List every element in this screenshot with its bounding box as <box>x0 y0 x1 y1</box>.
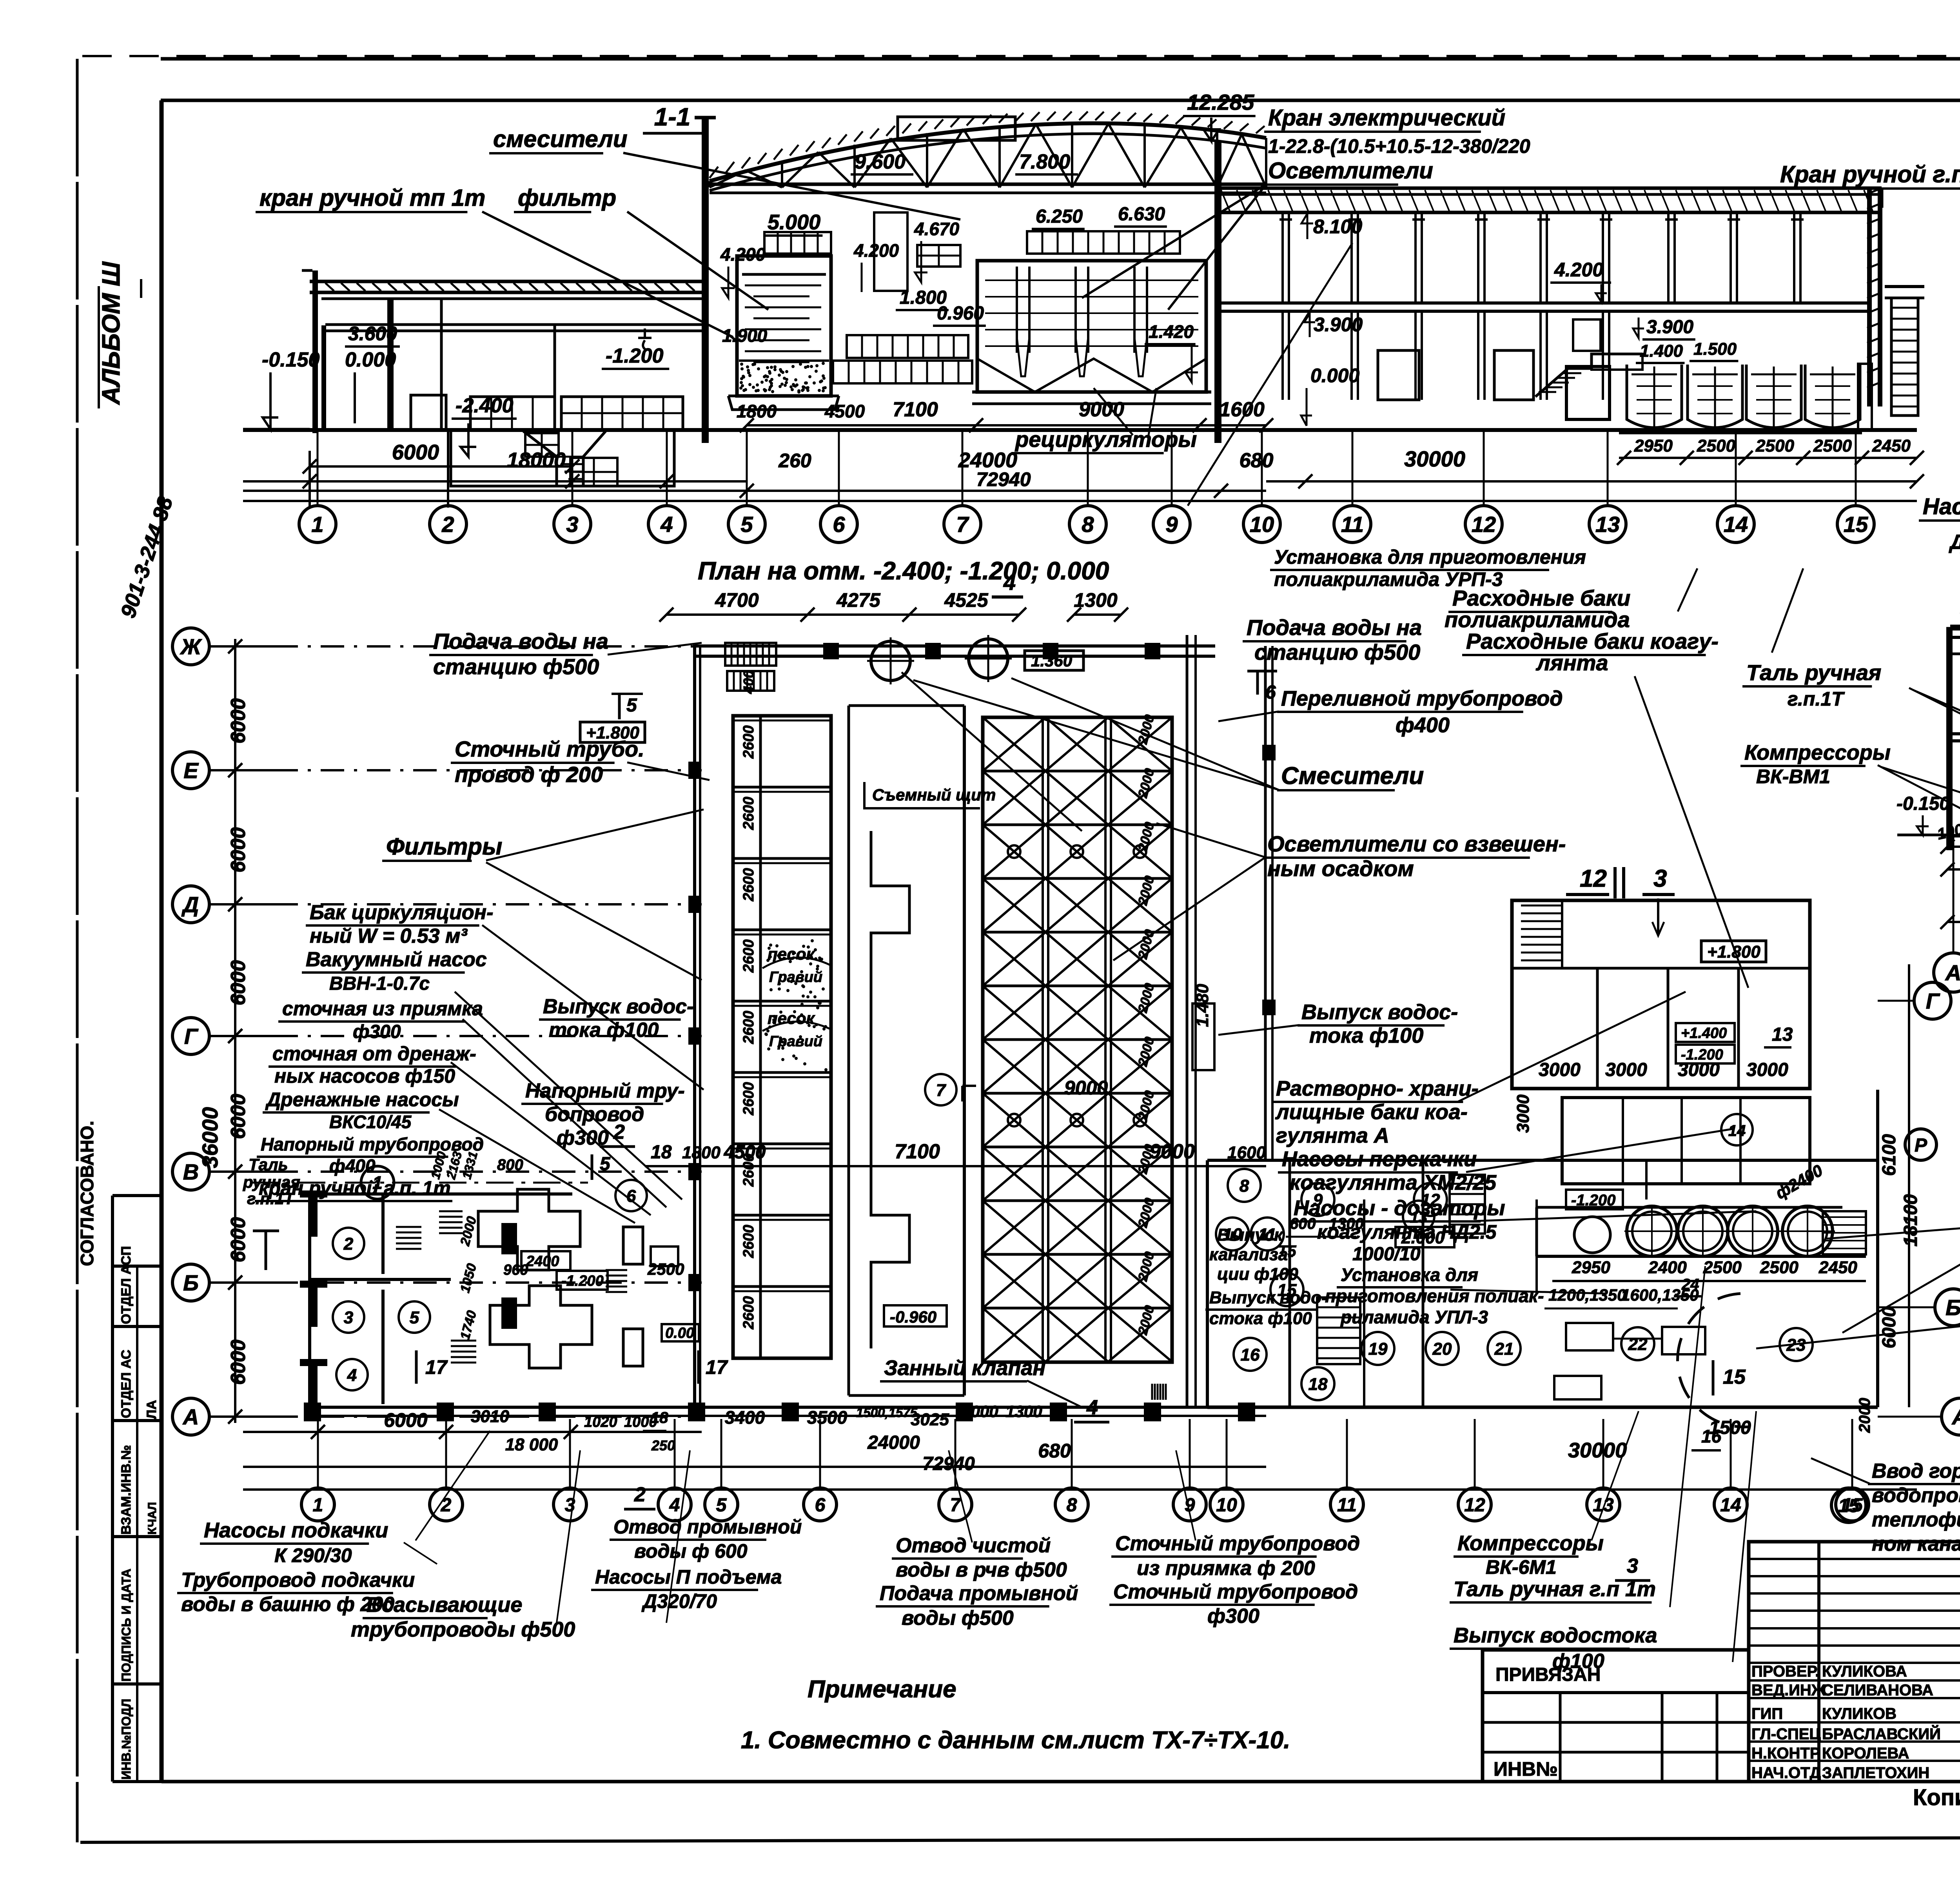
basement stair pit <box>451 431 674 486</box>
svg-text:20: 20 <box>1432 1339 1452 1359</box>
upper tank block (rastvorno-khranilishchnye) <box>1512 900 1810 1089</box>
svg-text:11: 11 <box>1341 512 1364 537</box>
svg-text:ПРОВЕР.: ПРОВЕР. <box>1751 1663 1819 1680</box>
stair right building <box>1535 354 1642 397</box>
svg-text:2600: 2600 <box>740 1011 757 1044</box>
svg-text:2600: 2600 <box>740 868 757 902</box>
svg-text:4500: 4500 <box>824 401 865 421</box>
svg-text:Таль ручная г.п 1т: Таль ручная г.п 1т <box>1454 1577 1656 1601</box>
bottom wall row A <box>310 1406 1266 1409</box>
svg-text:4.200: 4.200 <box>720 244 766 265</box>
leader lines from left labels <box>482 925 704 1090</box>
svg-text:риламида УПЛ-3: риламида УПЛ-3 <box>1340 1307 1488 1327</box>
ground line <box>243 428 1917 432</box>
svg-text:10: 10 <box>1216 1495 1237 1515</box>
svg-text:ВЕД.ИНЖ: ВЕД.ИНЖ <box>1751 1682 1826 1699</box>
svg-text:Фильтры: Фильтры <box>386 833 502 860</box>
hatch marks below grid <box>1151 1384 1153 1400</box>
+1.400 -1.200 boxes <box>1676 1023 1735 1042</box>
grid line Г <box>210 1035 274 1037</box>
svg-text:1.500: 1.500 <box>1693 339 1737 359</box>
svg-text:Осветлители со взвешен-: Осветлители со взвешен- <box>1267 831 1566 856</box>
svg-text:ГИП: ГИП <box>1751 1705 1783 1722</box>
svg-text:Таль: Таль <box>249 1155 288 1174</box>
ground floor columns <box>1281 311 1284 400</box>
svg-text:2: 2 <box>441 512 454 537</box>
interior partitions right plan <box>1289 1160 1291 1407</box>
svg-text:-0.150: -0.150 <box>262 348 320 371</box>
grid line Б <box>210 1281 274 1284</box>
svg-text:18: 18 <box>1308 1375 1328 1394</box>
svg-text:9: 9 <box>1313 1190 1323 1210</box>
svg-text:Сточный трубопровод: Сточный трубопровод <box>1115 1532 1360 1555</box>
svg-text:72940: 72940 <box>922 1453 975 1474</box>
svg-text:ф400: ф400 <box>1396 713 1450 737</box>
2.000 box room 12 <box>1396 1227 1454 1247</box>
svg-text:11: 11 <box>1337 1495 1357 1515</box>
svg-text:2500: 2500 <box>1697 436 1735 455</box>
lower-left rooms outer walls <box>310 1192 572 1196</box>
3-3 grid bubbles <box>1953 837 1955 953</box>
plan left outer wall <box>693 645 696 1407</box>
svg-text:ВВН-1-0.7с: ВВН-1-0.7с <box>329 973 430 994</box>
svg-text:7: 7 <box>956 512 969 537</box>
svg-text:АЛЬБОМ Ш: АЛЬБОМ Ш <box>97 261 125 405</box>
svg-text:19: 19 <box>1368 1339 1388 1359</box>
svg-text:смесители: смесители <box>493 126 628 152</box>
1-1 left low building <box>310 280 706 283</box>
svg-text:6.630: 6.630 <box>1118 204 1165 225</box>
equipment boxes left building <box>411 395 446 430</box>
svg-text:кран ручной тп 1т: кран ручной тп 1т <box>260 185 485 211</box>
svg-text:0.00: 0.00 <box>665 1325 694 1341</box>
svg-text:тока ф100: тока ф100 <box>1309 1024 1423 1047</box>
svg-text:17: 17 <box>425 1356 448 1378</box>
signature table <box>1749 1542 1960 1782</box>
svg-text:Съемный щит: Съемный щит <box>872 786 996 804</box>
svg-text:ВК-6М1: ВК-6М1 <box>1486 1556 1557 1578</box>
svg-text:12: 12 <box>1472 512 1496 537</box>
svg-text:воды в рчв ф500: воды в рчв ф500 <box>896 1559 1067 1581</box>
svg-text:Подача воды на: Подача воды на <box>1247 615 1422 640</box>
svg-text:ИНВ№: ИНВ№ <box>1494 1758 1558 1780</box>
svg-text:4.670: 4.670 <box>914 219 960 239</box>
svg-text:стока ф100: стока ф100 <box>1209 1309 1312 1328</box>
svg-text:2: 2 <box>613 1121 625 1143</box>
svg-text:Насосы Пподъема: Насосы Пподъема <box>1923 494 1960 519</box>
svg-text:14: 14 <box>1728 1122 1746 1140</box>
svg-text:СОГЛАСОВАНО.: СОГЛАСОВАНО. <box>77 1121 97 1266</box>
crane rail grid <box>1027 231 1180 254</box>
svg-text:7.800: 7.800 <box>1019 151 1070 173</box>
left margin stamp table <box>111 1196 114 1782</box>
leader from 9-10 to crane <box>1188 243 1352 506</box>
svg-text:8: 8 <box>1240 1176 1249 1196</box>
svg-text:7: 7 <box>936 1081 947 1100</box>
svg-text:воды ф500: воды ф500 <box>902 1607 1014 1629</box>
svg-text:2400: 2400 <box>526 1253 559 1270</box>
svg-text:2500: 2500 <box>1755 436 1794 455</box>
filter bank outer <box>733 716 831 1358</box>
svg-text:4: 4 <box>1003 570 1016 595</box>
svg-text:12: 12 <box>1580 865 1607 892</box>
grid line А <box>210 1415 274 1418</box>
svg-text:3500: 3500 <box>807 1407 848 1428</box>
svg-text:24: 24 <box>1681 1276 1699 1293</box>
svg-text:1500: 1500 <box>1709 1417 1751 1438</box>
svg-text:1: 1 <box>313 1495 323 1515</box>
right small tanks in pit <box>1619 431 1862 434</box>
svg-text:Р: Р <box>1915 1135 1927 1156</box>
svg-text:г.п.1Т: г.п.1Т <box>247 1189 295 1208</box>
svg-text:17: 17 <box>706 1356 728 1378</box>
top wall band of plan <box>695 644 1215 648</box>
svg-text:ф400: ф400 <box>329 1156 376 1176</box>
-0.960 box <box>884 1305 947 1326</box>
paper left edge <box>76 59 79 1842</box>
grid line В <box>210 1170 274 1173</box>
svg-text:2: 2 <box>343 1234 354 1254</box>
sand layer dots <box>739 362 827 394</box>
svg-text:Б: Б <box>183 1270 199 1295</box>
frame top band <box>161 57 1960 61</box>
row B wall <box>310 1278 451 1281</box>
svg-text:ЛА: ЛА <box>144 1400 159 1419</box>
svg-text:13: 13 <box>1772 1024 1793 1045</box>
svg-text:6000: 6000 <box>227 827 250 873</box>
svg-text:0.000: 0.000 <box>345 348 396 371</box>
svg-text:1.900: 1.900 <box>722 325 768 346</box>
svg-text:2400: 2400 <box>1648 1258 1687 1277</box>
svg-text:1300: 1300 <box>1329 1215 1364 1232</box>
svg-text:6: 6 <box>833 512 845 537</box>
unit block left of tanks <box>1566 367 1610 419</box>
svg-text:-1.200: -1.200 <box>1681 1047 1723 1063</box>
svg-text:2500: 2500 <box>1760 1258 1798 1277</box>
paper bottom edge <box>80 1836 1960 1842</box>
svg-text:-1.200: -1.200 <box>606 345 664 367</box>
svg-text:Компрессоры: Компрессоры <box>1744 741 1891 764</box>
svg-text:5: 5 <box>740 512 753 537</box>
svg-text:2600: 2600 <box>740 725 757 759</box>
clarifiers plan grid <box>983 717 1172 1362</box>
svg-text:трубопроводы ф500: трубопроводы ф500 <box>351 1618 575 1641</box>
svg-text:фильтр: фильтр <box>518 185 616 211</box>
mid floor slab <box>1221 301 1867 305</box>
svg-text:8: 8 <box>1082 512 1094 537</box>
clarifier hoppers <box>977 359 1206 392</box>
svg-text:Н.КОНТР: Н.КОНТР <box>1751 1745 1820 1762</box>
svg-text:13: 13 <box>1593 1495 1614 1515</box>
svg-text:приготовления полиак-: приготовления полиак- <box>1325 1286 1544 1306</box>
top-left stairs of plan <box>725 643 776 666</box>
svg-text:А: А <box>1945 960 1960 985</box>
svg-text:станцию ф500: станцию ф500 <box>433 654 599 679</box>
svg-text:Выпуск водос-: Выпуск водос- <box>1301 1000 1458 1024</box>
skylight box <box>898 117 1015 140</box>
svg-text:5: 5 <box>410 1308 419 1327</box>
svg-text:ВЗАМ.ИНВ.№: ВЗАМ.ИНВ.№ <box>119 1445 134 1535</box>
svg-text:6000: 6000 <box>392 441 439 464</box>
right building left wall <box>1215 188 1221 406</box>
svg-text:Насосы П подъема: Насосы П подъема <box>595 1566 782 1588</box>
svg-text:10: 10 <box>1250 512 1274 537</box>
svg-text:тока ф100: тока ф100 <box>549 1019 659 1042</box>
svg-text:2000: 2000 <box>961 1402 998 1421</box>
svg-text:3: 3 <box>1653 865 1667 892</box>
svg-text:16: 16 <box>1241 1345 1260 1365</box>
svg-text:12: 12 <box>1464 1495 1485 1515</box>
svg-text:из приямка ф 200: из приямка ф 200 <box>1137 1557 1315 1580</box>
axis 1 centerline <box>251 1182 588 1184</box>
left building partitions <box>440 299 443 429</box>
svg-text:1200,1350: 1200,1350 <box>1548 1286 1626 1304</box>
svg-text:18000: 18000 <box>507 448 566 472</box>
grid line Д <box>210 903 274 905</box>
svg-text:4: 4 <box>347 1366 357 1385</box>
svg-text:14: 14 <box>1720 1495 1741 1515</box>
svg-text:КОРОЛЕВА: КОРОЛЕВА <box>1822 1745 1909 1762</box>
svg-text:+1.800: +1.800 <box>1707 942 1760 962</box>
svg-text:Выпуск водостока: Выпуск водостока <box>1454 1624 1657 1647</box>
svg-text:6000: 6000 <box>384 1409 427 1431</box>
svg-text:План на отм. -2.400; -1.200; 0: План на отм. -2.400; -1.200; 0.000 <box>698 557 1109 585</box>
svg-text:4500: 4500 <box>724 1142 766 1163</box>
svg-text:Копировал: Коршунова: Копировал: Коршунова <box>1913 1785 1960 1810</box>
svg-text:15: 15 <box>1278 1281 1297 1300</box>
floor band <box>325 323 702 326</box>
svg-text:Переливной трубопровод: Переливной трубопровод <box>1281 687 1563 710</box>
stair hatches pump hall <box>396 1226 421 1228</box>
svg-text:+1.400: +1.400 <box>1681 1025 1727 1042</box>
svg-text:1.480: 1.480 <box>1193 983 1212 1027</box>
svg-text:1-1: 1-1 <box>654 103 691 131</box>
svg-text:бопровод: бопровод <box>545 1103 644 1126</box>
svg-text:7100: 7100 <box>895 1140 940 1163</box>
svg-text:13: 13 <box>1595 512 1620 537</box>
svg-text:К 290/30: К 290/30 <box>274 1544 352 1566</box>
svg-text:Насосы - дозаторы: Насосы - дозаторы <box>1294 1196 1505 1220</box>
svg-text:Сточный трубопровод: Сточный трубопровод <box>1113 1580 1358 1603</box>
svg-text:Отвод промывной: Отвод промывной <box>613 1516 802 1538</box>
roof deck hatch <box>710 167 718 178</box>
svg-text:1020: 1020 <box>584 1414 617 1430</box>
svg-text:ИНВ.№ПОДЛ: ИНВ.№ПОДЛ <box>119 1699 133 1780</box>
svg-text:ф300: ф300 <box>353 1022 401 1042</box>
svg-text:2600: 2600 <box>740 1296 757 1330</box>
+1.800 box top <box>580 722 645 742</box>
svg-text:4.200: 4.200 <box>853 240 899 261</box>
svg-text:песок: песок <box>768 945 815 963</box>
svg-text:НАЧ.ОТД: НАЧ.ОТД <box>1751 1764 1821 1782</box>
curved roof truss <box>710 123 1266 181</box>
svg-text:9000: 9000 <box>1149 1140 1195 1163</box>
svg-text:В: В <box>183 1159 199 1184</box>
svg-text:Г: Г <box>184 1024 199 1049</box>
svg-text:ГЛ-СПЕЦ: ГЛ-СПЕЦ <box>1751 1726 1821 1743</box>
svg-text:БРАСЛАВСКИЙ: БРАСЛАВСКИЙ <box>1822 1725 1941 1743</box>
small equipment rects bottom right plan <box>1566 1323 1613 1350</box>
sand cells hatch <box>764 939 828 1071</box>
svg-text:2600: 2600 <box>740 1225 757 1258</box>
svg-text:680: 680 <box>1038 1440 1071 1462</box>
svg-text:18100: 18100 <box>1900 1194 1921 1247</box>
svg-text:1-22.8-(10.5+10.5-12-380/220: 1-22.8-(10.5+10.5-12-380/220 <box>1268 135 1530 157</box>
svg-text:4: 4 <box>669 1495 680 1515</box>
svg-text:Компрессоры: Компрессоры <box>1457 1531 1604 1555</box>
svg-text:2450: 2450 <box>1872 436 1911 455</box>
svg-text:9000: 9000 <box>1079 398 1124 421</box>
hook symbol tal <box>644 328 646 338</box>
+1.800 box <box>1701 941 1766 962</box>
svg-text:36000: 36000 <box>198 1107 222 1168</box>
right building right wall hatched <box>1867 188 1872 406</box>
svg-text:6000: 6000 <box>227 1339 250 1385</box>
svg-text:ОТДЕЛ АСП: ОТДЕЛ АСП <box>119 1246 134 1324</box>
svg-text:24000: 24000 <box>867 1432 920 1453</box>
svg-text:18: 18 <box>651 1142 672 1163</box>
leader lines bottom labels <box>416 1431 490 1541</box>
T-wall end marks <box>310 1194 318 1237</box>
svg-text:Таль ручная: Таль ручная <box>1746 660 1881 685</box>
dim row under tanks <box>1619 457 1917 459</box>
hoist monorail symbol <box>265 1231 267 1270</box>
svg-text:Подача воды на: Подача воды на <box>433 629 608 653</box>
svg-text:9.600: 9.600 <box>855 151 906 173</box>
svg-text:Кран ручной г.п.1т: Кран ручной г.п.1т <box>1780 161 1960 187</box>
svg-text:6000: 6000 <box>227 960 250 1005</box>
svg-text:30000: 30000 <box>1404 446 1465 471</box>
svg-text:1800: 1800 <box>682 1143 720 1162</box>
svg-text:Отвод чистой: Отвод чистой <box>896 1534 1051 1557</box>
svg-text:2600: 2600 <box>740 1082 757 1116</box>
svg-text:6000: 6000 <box>1879 1306 1900 1348</box>
svg-text:3000: 3000 <box>1746 1060 1788 1080</box>
room number circles <box>333 1228 364 1259</box>
paper top edge dashed line <box>82 55 1960 57</box>
stair tower right of building <box>1885 285 1924 288</box>
1-1 middle tall building columns <box>702 118 709 443</box>
right building columns <box>1281 214 1284 303</box>
svg-text:Е: Е <box>183 758 199 783</box>
svg-text:800: 800 <box>497 1156 523 1174</box>
svg-text:6: 6 <box>815 1495 826 1515</box>
svg-text:4700: 4700 <box>715 589 759 611</box>
svg-text:провод ф 200: провод ф 200 <box>455 762 603 787</box>
svg-text:Гравий: Гравий <box>769 1033 822 1050</box>
svg-text:3: 3 <box>1627 1555 1638 1577</box>
svg-text:72940: 72940 <box>976 468 1031 490</box>
svg-text:3000: 3000 <box>1539 1060 1581 1080</box>
svg-text:3: 3 <box>344 1308 353 1327</box>
svg-text:3.600: 3.600 <box>348 323 397 345</box>
svg-text:5: 5 <box>716 1495 727 1515</box>
svg-text:водопровода в: водопровода в <box>1872 1484 1960 1507</box>
clarifier internal pipes <box>1016 267 1018 353</box>
svg-text:1. Совместно с данным см.лист: 1. Совместно с данным см.лист ТХ-7÷ТХ-10… <box>741 1727 1290 1754</box>
interior column <box>387 299 394 430</box>
svg-text:1.420: 1.420 <box>1149 321 1194 342</box>
title block <box>1483 1650 1749 1782</box>
svg-text:полиакриламида: полиакриламида <box>1445 607 1630 632</box>
svg-text:Осветлители: Осветлители <box>1268 158 1433 183</box>
svg-text:КЧАЛ: КЧАЛ <box>146 1502 159 1535</box>
svg-text:теплофикацион-: теплофикацион- <box>1872 1508 1960 1531</box>
svg-text:12.285: 12.285 <box>1187 90 1254 114</box>
svg-text:ный W = 0.53 м³: ный W = 0.53 м³ <box>310 925 468 947</box>
svg-text:4275: 4275 <box>836 589 880 611</box>
svg-text:ВКС10/45: ВКС10/45 <box>329 1112 412 1132</box>
clarifier block <box>977 261 1206 392</box>
svg-text:3.900: 3.900 <box>1314 314 1363 336</box>
svg-text:ных насосов ф150: ных насосов ф150 <box>274 1065 455 1087</box>
central walls <box>848 706 850 1395</box>
svg-text:Расходные баки коагу-: Расходные баки коагу- <box>1466 629 1719 653</box>
svg-text:ЗАПЛЕТОХИН: ЗАПЛЕТОХИН <box>1822 1764 1929 1782</box>
right wall of clarifier w dims <box>1186 635 1189 1407</box>
svg-text:6100: 6100 <box>1879 1134 1900 1176</box>
svg-text:Занный клапан: Занный клапан <box>884 1356 1045 1380</box>
right plan outer walls <box>1207 1159 1878 1162</box>
clarifier water hatch <box>985 279 1198 281</box>
svg-text:лищные баки коа-: лищные баки коа- <box>1275 1100 1468 1124</box>
svg-text:Растворно- храни-: Растворно- храни- <box>1276 1077 1479 1100</box>
svg-text:Всасывающие: Всасывающие <box>367 1593 522 1617</box>
svg-text:15: 15 <box>1838 1495 1860 1516</box>
svg-text:Ж: Ж <box>180 634 202 659</box>
svg-text:2600: 2600 <box>740 797 757 830</box>
svg-text:18 000: 18 000 <box>505 1435 558 1454</box>
svg-text:600: 600 <box>1290 1215 1316 1232</box>
filter underdrain <box>728 396 839 410</box>
svg-text:3.900: 3.900 <box>1646 317 1693 338</box>
stairs right plan <box>1317 1297 1360 1364</box>
svg-text:ф300: ф300 <box>1207 1605 1259 1628</box>
svg-text:воды в башню ф 200: воды в башню ф 200 <box>181 1593 394 1616</box>
svg-text:4: 4 <box>1086 1396 1098 1419</box>
svg-text:960: 960 <box>503 1262 528 1278</box>
3-3 building outline <box>1946 629 1953 850</box>
svg-text:Дренажные насосы: Дренажные насосы <box>265 1089 459 1110</box>
svg-text:4525: 4525 <box>944 589 988 611</box>
3-3 mid floor <box>1953 732 1960 735</box>
filter tank <box>737 256 831 396</box>
svg-text:Установка для приготовления: Установка для приготовления <box>1274 546 1586 568</box>
svg-text:3000: 3000 <box>1514 1094 1533 1133</box>
svg-text:5: 5 <box>626 695 637 716</box>
svg-text:13: 13 <box>1410 1209 1428 1226</box>
svg-text:Бак циркуляцион-: Бак циркуляцион- <box>310 901 493 924</box>
svg-text:9: 9 <box>1165 512 1178 537</box>
room 7 circle <box>925 1074 956 1105</box>
room circles right plan <box>1228 1169 1261 1202</box>
svg-text:Кран электрический: Кран электрический <box>1268 105 1505 131</box>
svg-text:14: 14 <box>1724 512 1748 537</box>
east outer wall of clarifier hall <box>1264 646 1267 1160</box>
svg-text:Трубопровод подкачки: Трубопровод подкачки <box>181 1569 415 1591</box>
svg-text:1.400: 1.400 <box>1640 341 1683 361</box>
svg-text:2500: 2500 <box>1703 1258 1742 1277</box>
svg-text:сточная из приямка: сточная из приямка <box>282 998 483 1020</box>
bottom grid bubbles 1-15 <box>317 1419 319 1490</box>
grid line marker P right <box>1905 1129 1936 1160</box>
svg-text:6.250: 6.250 <box>1036 206 1083 227</box>
svg-text:Смесители: Смесители <box>1281 762 1424 789</box>
grid bubbles 1-15 <box>317 431 319 506</box>
svg-text:Подача промывной: Подача промывной <box>880 1582 1078 1605</box>
svg-text:2: 2 <box>441 1495 452 1515</box>
svg-text:ВК-ВМ1: ВК-ВМ1 <box>1756 766 1830 788</box>
